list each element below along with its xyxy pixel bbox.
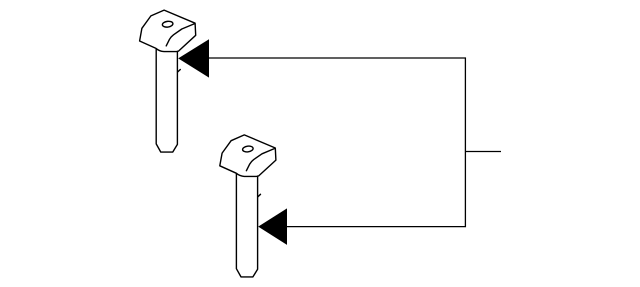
bolt 2 head crease (246, 148, 275, 170)
bolt 1 head hole (ellipse) (162, 21, 173, 28)
bolt 2 (lower T-bolt, same artwork shifted) (220, 135, 276, 277)
bolt 1 (upper-left T-bolt) (140, 10, 196, 152)
arrowhead 2 (points at bolt 2) (258, 208, 287, 245)
right stub line (465, 151, 501, 153)
arrowhead 1 (points at bolt 1) (178, 39, 209, 77)
bolt 2 head outline (220, 135, 276, 176)
bolt 2 head hole (ellipse) (242, 145, 253, 152)
bolt 1 head outline (140, 10, 196, 52)
bolt 1 head crease (166, 24, 195, 46)
bolt 2 small tick on shaft (258, 194, 261, 197)
bolt 1 shaft (156, 49, 177, 152)
bolt 1 small tick on shaft (178, 70, 181, 73)
leader line polyline (top, right vertical, bottom) (209, 58, 465, 227)
bolt 2 shaft (236, 174, 257, 277)
